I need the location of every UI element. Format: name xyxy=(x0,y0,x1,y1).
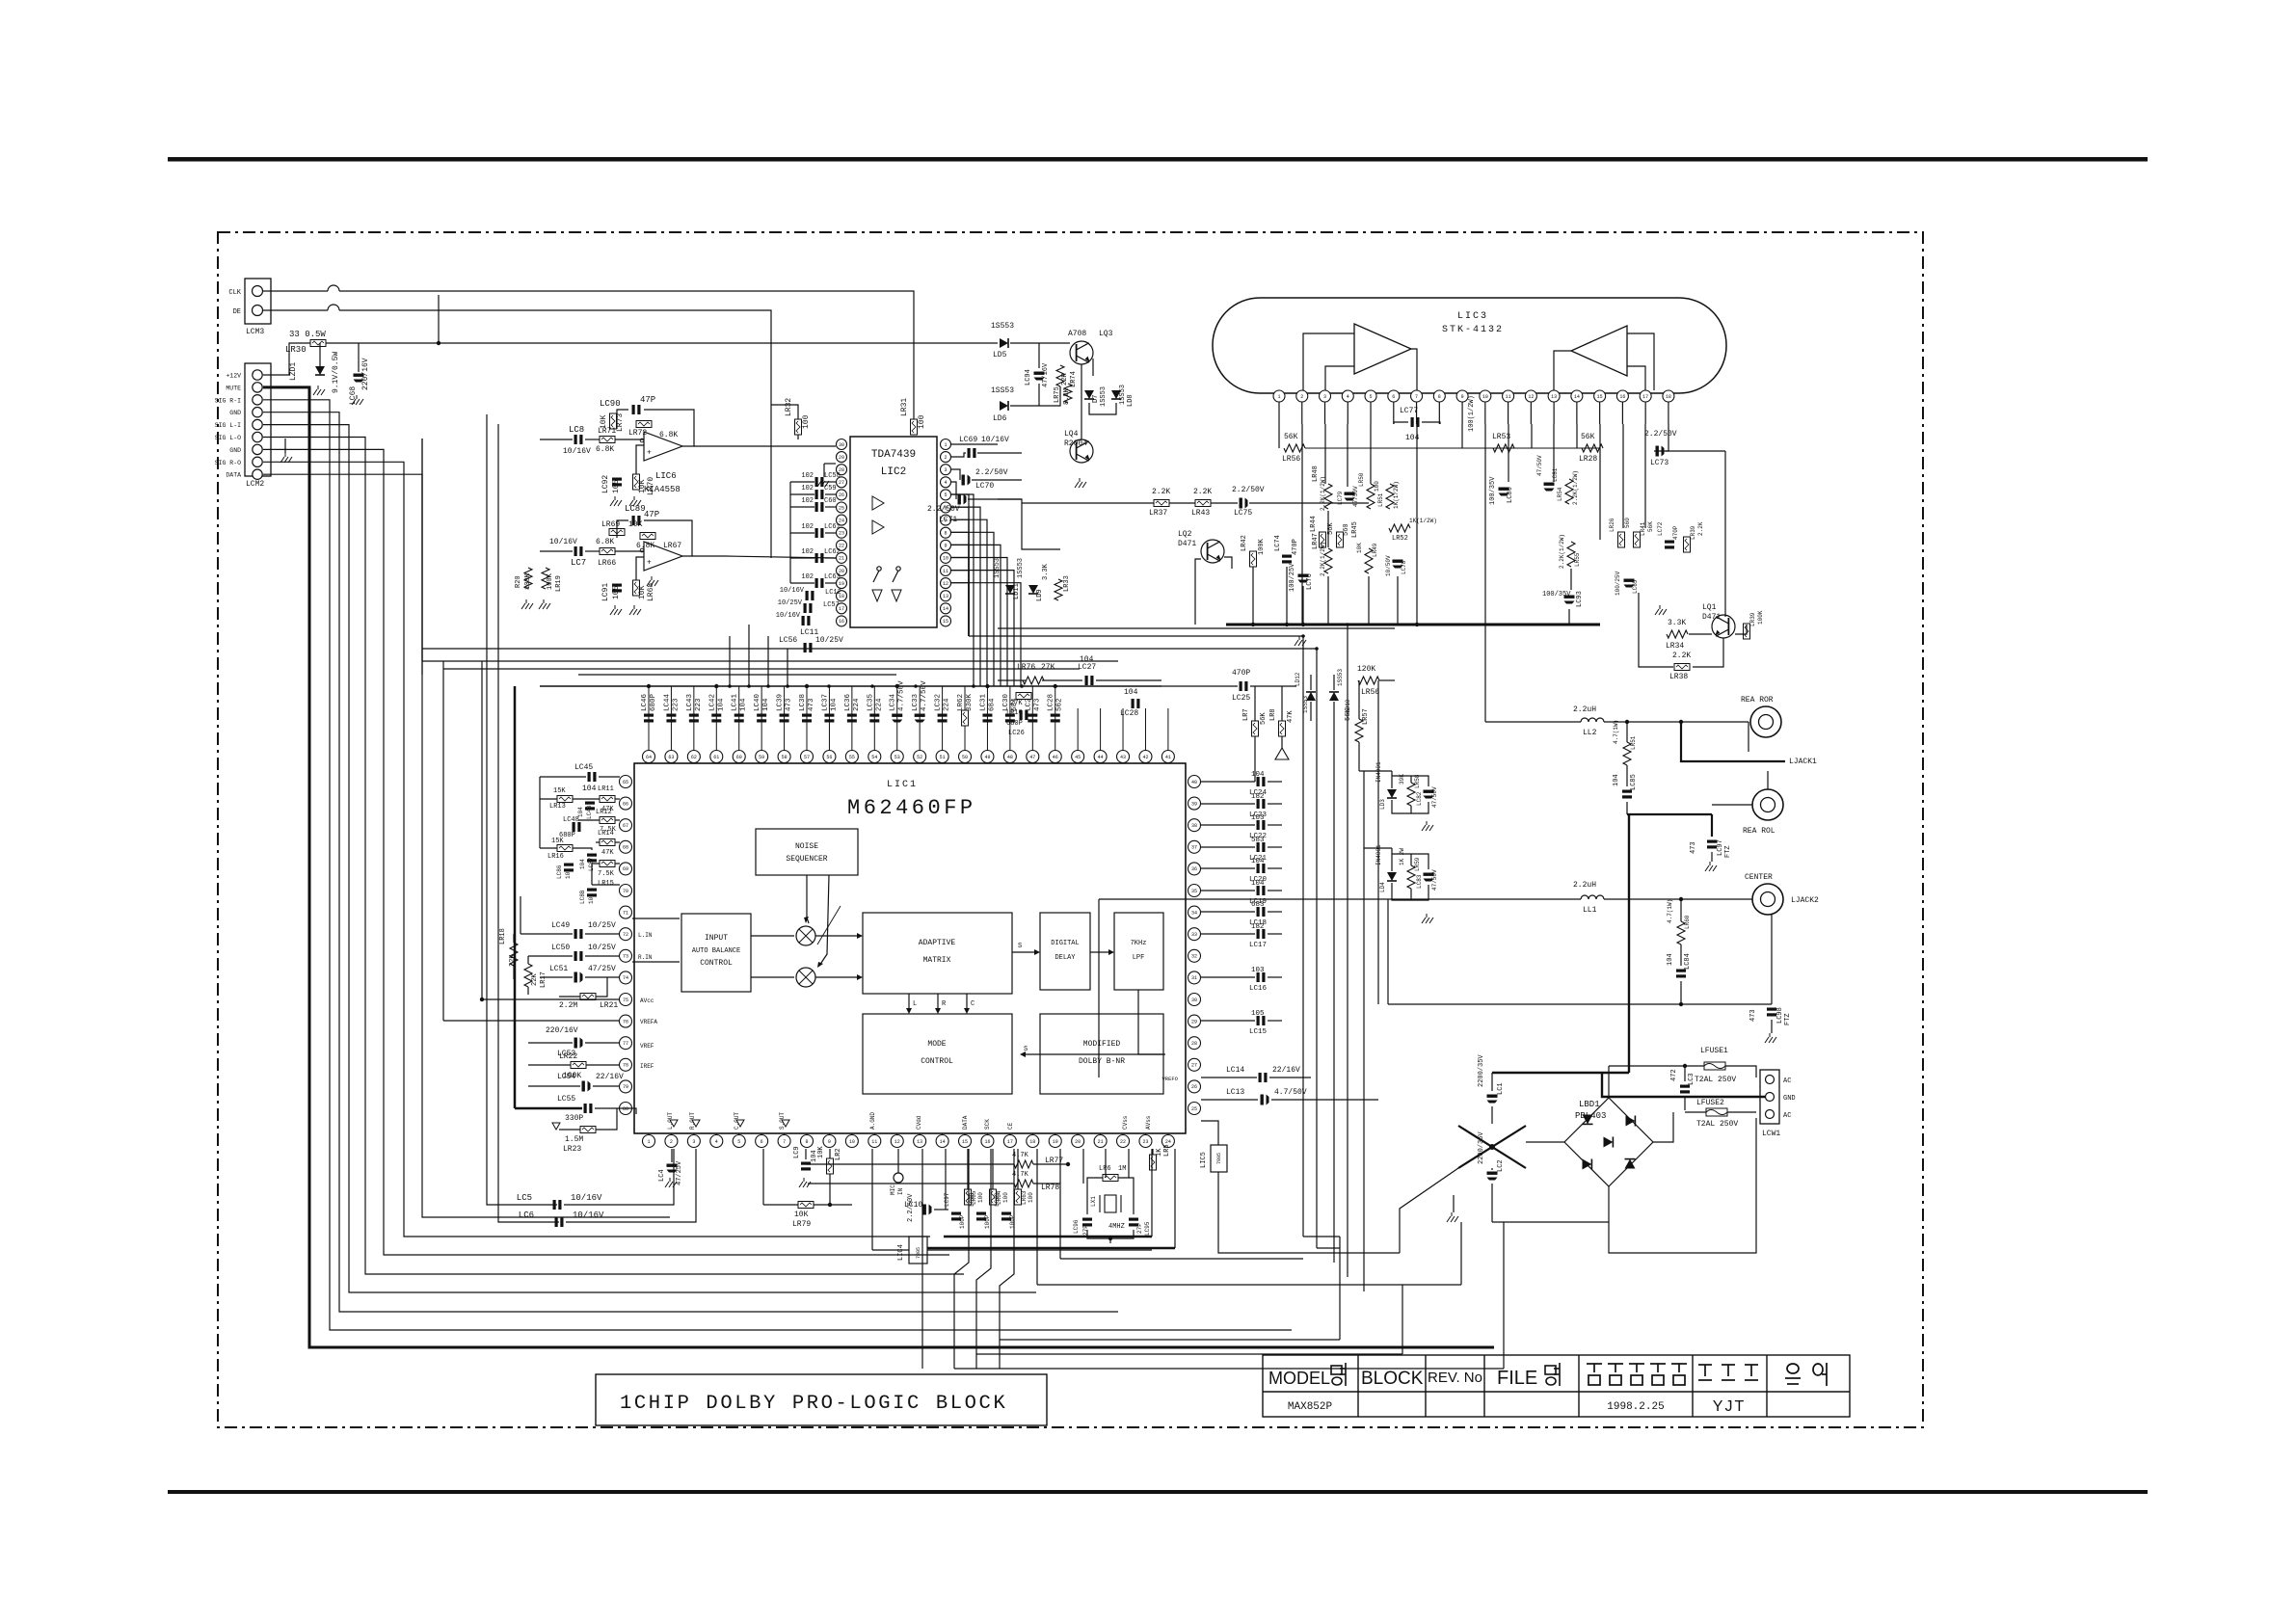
amplifier triangle right xyxy=(1571,326,1627,376)
svg-text:8: 8 xyxy=(806,1139,809,1145)
resistor LR56b 120K xyxy=(1358,677,1379,684)
svg-text:51: 51 xyxy=(940,755,946,760)
svg-text:LQ3: LQ3 xyxy=(1099,330,1113,338)
svg-text:1K(1/2W): 1K(1/2W) xyxy=(1393,481,1400,509)
svg-text:LC84: LC84 xyxy=(1684,953,1692,970)
svg-text:AC: AC xyxy=(1783,1078,1791,1085)
wires LR77 LR78 xyxy=(806,1163,1014,1165)
capacitor LC4 47/25V xyxy=(667,1164,678,1173)
resistor LR14 47K xyxy=(600,839,615,846)
svg-text:LC90: LC90 xyxy=(600,399,621,409)
wire LCM2 bus 1 xyxy=(263,387,1494,1347)
svg-text:LD3: LD3 xyxy=(1379,799,1386,810)
svg-text:L.IN: L.IN xyxy=(638,932,653,939)
svg-text:25: 25 xyxy=(1191,1106,1197,1112)
svg-text:61: 61 xyxy=(713,755,719,760)
resistor LR79 10K xyxy=(798,1202,814,1209)
svg-text:33: 33 xyxy=(1191,932,1197,938)
svg-text:LC44: LC44 xyxy=(663,693,671,711)
capacitor LC31 684 xyxy=(986,686,988,751)
svg-text:LR48: LR48 xyxy=(1312,466,1320,482)
svg-text:1SS53: 1SS53 xyxy=(991,386,1014,395)
svg-text:LC31: LC31 xyxy=(979,693,987,711)
svg-text:LR28: LR28 xyxy=(1579,455,1597,464)
svg-text:10: 10 xyxy=(943,556,948,562)
svg-text:4.7/50V: 4.7/50V xyxy=(1274,1088,1307,1097)
capacitors 102 row LC58 LC59 LC60 xyxy=(815,477,824,487)
svg-text:LC33: LC33 xyxy=(912,693,920,711)
capacitor LR62 330K xyxy=(964,686,966,751)
svg-text:2.2K: 2.2K xyxy=(1193,488,1212,496)
svg-text:LC55: LC55 xyxy=(557,1095,575,1104)
svg-text:2.2K: 2.2K xyxy=(1672,652,1691,660)
svg-text:LR63: LR63 xyxy=(1021,1190,1028,1205)
svg-text:19: 19 xyxy=(839,581,844,587)
connector LCM2 xyxy=(245,363,271,476)
svg-text:46: 46 xyxy=(1053,755,1058,760)
svg-text:LR32: LR32 xyxy=(785,398,793,416)
svg-text:LC93: LC93 xyxy=(1576,591,1584,607)
svg-text:103: 103 xyxy=(1251,967,1265,974)
svg-text:104: 104 xyxy=(740,698,748,711)
capacitor LC22 103 xyxy=(1201,824,1255,826)
svg-text:7: 7 xyxy=(783,1139,786,1145)
svg-text:182: 182 xyxy=(1251,923,1265,931)
svg-text:LR51: LR51 xyxy=(1377,492,1384,507)
LIC1 left pins 65..80 xyxy=(620,776,632,788)
svg-text:2.2K: 2.2K xyxy=(1152,488,1170,496)
svg-text:LC91: LC91 xyxy=(601,583,610,601)
svg-text:330K: 330K xyxy=(966,693,974,711)
svg-text:LC89: LC89 xyxy=(625,504,646,514)
wire LCM2 bus 2 xyxy=(263,400,1292,1330)
diode LD12 1SS53 xyxy=(1306,692,1316,701)
resistor LR6 1M xyxy=(1103,1175,1118,1182)
svg-text:6.8K: 6.8K xyxy=(659,431,678,439)
svg-text:49: 49 xyxy=(984,755,990,760)
svg-text:680P: 680P xyxy=(650,693,657,711)
svg-text:FTZ: FTZ xyxy=(1724,845,1732,858)
svg-text:DE: DE xyxy=(233,308,241,316)
regulator LIC4 7805 xyxy=(909,1237,927,1264)
resistor LR55 2.2K(1/2W) xyxy=(1567,542,1575,567)
svg-text:1CHIP DOLBY PRO-LOGIC BLOCK: 1CHIP DOLBY PRO-LOGIC BLOCK xyxy=(620,1393,1007,1415)
svg-text:59: 59 xyxy=(759,755,764,760)
capacitor LC45 104 xyxy=(588,772,597,782)
top border rule xyxy=(168,157,2148,162)
svg-text:LC99: LC99 xyxy=(994,1192,1001,1207)
TDA7439 right pins 1-15 xyxy=(941,439,951,450)
svg-text:LC17: LC17 xyxy=(1249,942,1267,949)
svg-text:LR2: LR2 xyxy=(835,1148,842,1160)
svg-text:LC73: LC73 xyxy=(1650,459,1669,467)
svg-text:MIC: MIC xyxy=(890,1184,896,1195)
resistor LR70 10K xyxy=(633,474,640,490)
svg-text:6.8K: 6.8K xyxy=(596,538,614,546)
svg-text:1K 2W: 1K 2W xyxy=(1399,848,1405,865)
svg-text:47/16V: 47/16V xyxy=(1042,362,1050,387)
svg-text:LR67: LR67 xyxy=(663,542,681,550)
capacitor LC21 583 xyxy=(1201,846,1255,848)
capacitor LC7 10/16V xyxy=(574,546,583,556)
svg-text:LC86: LC86 xyxy=(556,865,563,879)
svg-text:T2AL 250V: T2AL 250V xyxy=(1696,1120,1738,1129)
capacitor LC80 100/35V xyxy=(1499,488,1509,496)
svg-text:47/25V: 47/25V xyxy=(676,1160,683,1185)
crystal wires xyxy=(1105,1149,1107,1178)
capacitor LC84 104 xyxy=(1676,970,1686,978)
svg-text:100/35V: 100/35V xyxy=(1542,591,1571,599)
resistor LR5 1K xyxy=(1150,1155,1157,1170)
svg-text:683: 683 xyxy=(1251,901,1265,909)
svg-text:LR16: LR16 xyxy=(547,853,564,861)
svg-text:LC34: LC34 xyxy=(890,693,897,711)
resistor LR47 2.2K(1/2W) xyxy=(1324,548,1332,573)
capacitor LC51 47/25V xyxy=(574,972,583,983)
capacitor LC36 224 xyxy=(851,686,853,751)
resistor LR31 100 xyxy=(911,419,918,435)
svg-text:2.2K: 2.2K xyxy=(1697,521,1704,536)
svg-text:LIC2: LIC2 xyxy=(881,466,906,478)
capacitor LC32 224 xyxy=(942,686,944,751)
svg-text:72: 72 xyxy=(623,932,628,938)
wire DE bus xyxy=(263,309,328,311)
wires from TDA7439 right pins xyxy=(951,443,998,445)
svg-text:47P: 47P xyxy=(644,510,659,519)
svg-text:4: 4 xyxy=(944,480,947,486)
wire +12V to LR30 xyxy=(263,343,310,375)
svg-text:LC46: LC46 xyxy=(641,693,649,711)
svg-text:6.8K: 6.8K xyxy=(596,445,614,454)
svg-text:LR30: LR30 xyxy=(285,345,307,355)
svg-text:C60: C60 xyxy=(824,497,837,505)
svg-text:IN: IN xyxy=(897,1187,904,1195)
svg-text:BLOCK: BLOCK xyxy=(1361,1369,1424,1389)
capacitor LC28b 104 xyxy=(1132,699,1140,708)
svg-text:LIC3: LIC3 xyxy=(1457,311,1488,322)
junction dot xyxy=(437,341,441,345)
VREFA feed vertical xyxy=(442,661,444,1021)
svg-text:100K: 100K xyxy=(1757,610,1764,625)
svg-text:LC48: LC48 xyxy=(563,816,579,824)
capacitor LC61 102 xyxy=(815,528,824,538)
svg-text:LCM3: LCM3 xyxy=(246,328,264,336)
svg-text:104: 104 xyxy=(1080,655,1094,664)
svg-text:LR54: LR54 xyxy=(1557,487,1563,501)
svg-text:SIG R-O: SIG R-O xyxy=(215,460,241,466)
svg-text:LR62: LR62 xyxy=(957,694,965,711)
diode LD8 1SS53 xyxy=(1111,390,1121,399)
svg-text:LD8: LD8 xyxy=(1127,394,1135,407)
svg-text:LR56: LR56 xyxy=(1361,688,1379,697)
svg-text:LR14: LR14 xyxy=(598,830,614,838)
IC LIC3 STK-4132 body xyxy=(1213,298,1726,393)
svg-text:DIGITAL: DIGITAL xyxy=(1051,940,1079,947)
amplifier triangle left xyxy=(1354,324,1411,374)
mid horizontal bus 1b xyxy=(998,627,1395,629)
svg-text:T2AL 250V: T2AL 250V xyxy=(1695,1076,1736,1084)
svg-text:10/16V: 10/16V xyxy=(981,436,1009,444)
resistor LR15 7.5K xyxy=(600,861,615,867)
svg-text:10/25V: 10/25V xyxy=(815,636,843,645)
svg-text:224: 224 xyxy=(853,698,861,711)
jack REA ROR xyxy=(1750,706,1781,737)
svg-text:65: 65 xyxy=(623,780,628,785)
svg-text:4: 4 xyxy=(1347,394,1349,400)
capacitor LC33 4.7/50V xyxy=(919,686,921,751)
svg-text:9: 9 xyxy=(828,1139,831,1145)
svg-text:LD6: LD6 xyxy=(993,414,1007,423)
capacitor LC18 683 xyxy=(1201,911,1255,913)
svg-text:100/25V: 100/25V xyxy=(1289,563,1296,592)
jack CENTER LJACK2 xyxy=(1752,884,1783,915)
capacitor LC19 104 xyxy=(1201,890,1255,891)
wire top pin stub xyxy=(1144,708,1146,751)
svg-text:47/50V: 47/50V xyxy=(1431,786,1438,808)
resistor LR16 15K xyxy=(557,845,573,852)
capacitor LC90 47P xyxy=(632,405,641,414)
svg-text:LR51: LR51 xyxy=(1630,735,1637,750)
diode LD11 1SS53 xyxy=(1005,585,1015,594)
svg-text:470P: 470P xyxy=(1232,669,1250,678)
svg-text:33 0.5W: 33 0.5W xyxy=(289,330,326,339)
svg-text:LC13: LC13 xyxy=(1226,1088,1244,1097)
svg-text:LC7: LC7 xyxy=(571,558,586,568)
svg-text:LIC1: LIC1 xyxy=(887,780,918,790)
svg-text:104: 104 xyxy=(762,698,770,711)
svg-text:7805: 7805 xyxy=(916,1247,921,1259)
wires opamp2 xyxy=(540,550,573,552)
svg-text:LC40: LC40 xyxy=(754,693,761,711)
mid horizontal bus 1 xyxy=(969,635,1303,637)
capacitor LC91 105 xyxy=(612,584,622,593)
resistor LR74 22K xyxy=(1056,365,1064,386)
svg-text:R20: R20 xyxy=(515,575,522,588)
svg-text:LC72: LC72 xyxy=(1657,521,1664,536)
svg-text:LR71: LR71 xyxy=(598,427,616,436)
zener LZD1 9.1V/0.5W xyxy=(315,366,325,375)
resistor LR52 1K(1/2W) xyxy=(1389,524,1410,532)
svg-text:LR38: LR38 xyxy=(1669,673,1688,681)
svg-text:5: 5 xyxy=(944,492,947,498)
svg-text:LR17: LR17 xyxy=(540,971,547,988)
svg-text:LR57: LR57 xyxy=(1362,708,1370,725)
svg-text:25: 25 xyxy=(839,505,844,511)
svg-text:76: 76 xyxy=(623,1019,628,1024)
wire CLK bus xyxy=(263,290,328,292)
title block table xyxy=(1263,1355,1850,1417)
svg-text:224: 224 xyxy=(944,698,951,711)
svg-text:1: 1 xyxy=(647,1139,650,1145)
svg-text:LC36: LC36 xyxy=(844,693,852,711)
svg-text:FTZ: FTZ xyxy=(1784,1013,1792,1025)
svg-text:LC4B: LC4B xyxy=(586,805,593,819)
capacitor LC15 105 xyxy=(1201,1020,1255,1022)
svg-text:67: 67 xyxy=(623,823,628,829)
resistor LR17 22K xyxy=(524,964,532,987)
svg-text:17: 17 xyxy=(1007,1139,1013,1145)
svg-text:LQ4: LQ4 xyxy=(1064,430,1079,439)
svg-text:10K: 10K xyxy=(817,1146,825,1158)
svg-text:78: 78 xyxy=(623,1063,628,1069)
svg-text:LC63: LC63 xyxy=(824,573,841,581)
resistor LR22 100K xyxy=(571,1062,586,1069)
svg-text:27K: 27K xyxy=(1010,700,1023,707)
svg-text:GND: GND xyxy=(229,447,241,454)
capacitor LC49 10/25V xyxy=(574,929,583,939)
svg-text:43: 43 xyxy=(1120,755,1126,760)
svg-text:104: 104 xyxy=(579,859,586,869)
wires below LIC1 to bus xyxy=(921,1191,923,1369)
bowtie cross wires xyxy=(1491,1106,1493,1124)
svg-text:560: 560 xyxy=(1624,518,1631,528)
svg-text:LC9: LC9 xyxy=(793,1146,801,1158)
svg-text:1: 1 xyxy=(1277,394,1280,400)
svg-text:102: 102 xyxy=(801,523,814,531)
svg-text:6: 6 xyxy=(1392,394,1395,400)
resistor LR11 47K xyxy=(600,796,615,803)
svg-text:CENTER: CENTER xyxy=(1745,873,1773,882)
svg-text:LBD1: LBD1 xyxy=(1579,1100,1600,1109)
svg-text:S: S xyxy=(1024,1046,1028,1053)
svg-text:ADAPTIVE: ADAPTIVE xyxy=(919,939,956,947)
svg-text:2200/35V: 2200/35V xyxy=(1478,1131,1485,1164)
svg-text:52: 52 xyxy=(917,755,922,760)
capacitor LC54 22/16V xyxy=(582,1081,591,1092)
svg-text:LR45: LR45 xyxy=(1351,521,1359,538)
resistor LR7 56K xyxy=(1252,721,1259,736)
resistor LR51 1K(1/2W) xyxy=(1386,484,1394,509)
svg-text:79: 79 xyxy=(623,1084,628,1090)
resistor LR39r 2.2K xyxy=(1684,537,1691,552)
capacitor LC75 2.2/50V xyxy=(1240,498,1248,509)
AVcc feed vertical xyxy=(481,661,483,999)
svg-text:LR59: LR59 xyxy=(1414,857,1421,871)
svg-text:FILE: FILE xyxy=(1497,1368,1537,1389)
svg-text:22K: 22K xyxy=(531,973,539,986)
svg-text:2.2/50V: 2.2/50V xyxy=(975,468,1008,477)
svg-text:NOISE: NOISE xyxy=(795,842,818,851)
junction dots on top rail xyxy=(647,684,651,688)
resistor LR57 56K xyxy=(1355,719,1363,742)
svg-text:D471: D471 xyxy=(1178,540,1196,548)
svg-text:LQ2: LQ2 xyxy=(1178,530,1192,539)
svg-text:9: 9 xyxy=(944,544,947,549)
svg-text:LC75: LC75 xyxy=(1234,509,1252,518)
svg-text:LR66: LR66 xyxy=(598,559,616,568)
svg-text:10/16V: 10/16V xyxy=(573,1211,604,1220)
capacitor LC27 104 xyxy=(1085,676,1094,685)
svg-text:LC70: LC70 xyxy=(975,482,994,491)
resistor LR60 4.7(1W) xyxy=(1677,921,1685,945)
svg-text:100/25V: 100/25V xyxy=(1615,571,1621,596)
svg-text:REA ROL: REA ROL xyxy=(1743,827,1775,836)
svg-text:LD4: LD4 xyxy=(1379,882,1386,892)
svg-text:LQ1: LQ1 xyxy=(1702,603,1717,612)
svg-text:10/16V: 10/16V xyxy=(780,587,805,595)
STK pins 1-18 xyxy=(1273,390,1285,402)
svg-text:LCW1: LCW1 xyxy=(1762,1130,1780,1138)
bottom border rule xyxy=(168,1490,2148,1494)
bold bottom wires xyxy=(944,1236,1152,1237)
svg-text:71: 71 xyxy=(623,910,628,916)
resistor LR51v 4.7(1W) xyxy=(1623,742,1631,765)
svg-text:LD12: LD12 xyxy=(1295,672,1301,686)
resistor LR2 10K xyxy=(827,1158,834,1174)
svg-text:100: 100 xyxy=(1002,1192,1009,1203)
capacitor LC55 330P xyxy=(584,1104,593,1113)
svg-text:3: 3 xyxy=(692,1139,695,1145)
svg-text:56K: 56K xyxy=(1647,521,1654,532)
svg-text:LC96: LC96 xyxy=(1073,1219,1080,1234)
svg-text:REA ROR: REA ROR xyxy=(1741,696,1774,705)
svg-text:30: 30 xyxy=(839,442,844,448)
svg-text:10/50V: 10/50V xyxy=(1385,555,1392,576)
svg-text:2.2K(1/2W): 2.2K(1/2W) xyxy=(1572,470,1579,505)
svg-text:LR21: LR21 xyxy=(600,1001,618,1010)
resistor LR72 6.8K xyxy=(636,421,652,428)
svg-text:29: 29 xyxy=(1191,1019,1197,1024)
title header hangul SEOLGYEJA (approximated) xyxy=(1698,1365,1758,1380)
capacitor LC92 105 xyxy=(612,478,622,487)
svg-text:8: 8 xyxy=(1438,394,1441,400)
svg-text:LR39: LR39 xyxy=(1690,525,1696,540)
svg-text:11: 11 xyxy=(871,1139,877,1145)
svg-text:57: 57 xyxy=(804,755,810,760)
svg-text:11: 11 xyxy=(943,569,948,574)
capacitor LC82 47/50V xyxy=(1424,790,1434,799)
capacitor LC83 47/50V xyxy=(1424,873,1434,882)
svg-text:LZD1: LZD1 xyxy=(289,362,298,381)
svg-text:LR42: LR42 xyxy=(1241,535,1248,551)
svg-text:21: 21 xyxy=(1098,1139,1104,1145)
svg-text:LC79: LC79 xyxy=(1337,491,1344,505)
svg-text:AC: AC xyxy=(1783,1112,1791,1120)
TDA7439 inner switches xyxy=(877,567,881,571)
svg-text:4: 4 xyxy=(715,1139,718,1145)
svg-text:LC50: LC50 xyxy=(551,944,570,952)
svg-text:31: 31 xyxy=(1191,975,1197,981)
opamp outputs to TDA xyxy=(733,445,836,447)
bridge center diode xyxy=(1604,1137,1614,1148)
svg-text:104: 104 xyxy=(588,893,595,904)
svg-text:12: 12 xyxy=(894,1139,900,1145)
svg-text:LC92: LC92 xyxy=(601,475,610,493)
capacitor LC77 104 xyxy=(1411,417,1420,427)
svg-text:58: 58 xyxy=(782,755,788,760)
top bus rail 2 xyxy=(578,674,896,676)
svg-text:LR33: LR33 xyxy=(1063,575,1071,592)
svg-text:47/50V: 47/50V xyxy=(1431,869,1438,891)
capacitor LC95 27P xyxy=(1129,1218,1138,1227)
resistor LR12 7.5K xyxy=(600,817,615,824)
svg-text:27: 27 xyxy=(1191,1063,1197,1069)
capacitor LC46 680P xyxy=(648,686,650,751)
svg-text:LC16: LC16 xyxy=(1249,985,1268,993)
svg-text:R.IN: R.IN xyxy=(638,954,653,961)
svg-text:LC97: LC97 xyxy=(1717,839,1724,856)
svg-text:LC83: LC83 xyxy=(1416,874,1423,889)
svg-text:LC14: LC14 xyxy=(1226,1066,1244,1075)
svg-text:472: 472 xyxy=(1670,1069,1678,1081)
svg-text:100P: 100P xyxy=(1009,1214,1016,1229)
svg-text:SEQUENCER: SEQUENCER xyxy=(786,855,827,864)
svg-text:56K: 56K xyxy=(1284,433,1298,441)
svg-text:CVdd: CVdd xyxy=(916,1115,922,1130)
svg-text:38: 38 xyxy=(1191,823,1197,829)
svg-text:330P: 330P xyxy=(565,1114,583,1123)
arrow down sym xyxy=(552,1123,560,1130)
